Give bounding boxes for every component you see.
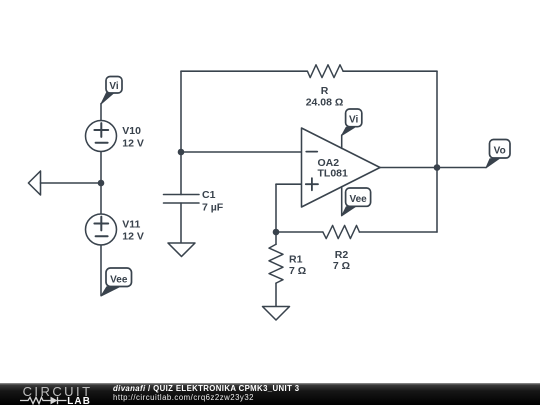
svg-text:Vi: Vi bbox=[349, 115, 358, 126]
svg-text:LAB: LAB bbox=[67, 396, 91, 405]
op-amp noninverting input plus symbol bbox=[306, 178, 318, 190]
svg-text:TL081: TL081 bbox=[318, 168, 349, 180]
wire: resistor R2 to right vertical bbox=[359, 231, 437, 233]
ground symbol under C1 bbox=[168, 243, 195, 257]
svg-text:Vee: Vee bbox=[349, 194, 367, 205]
svg-text:24.08 Ω: 24.08 Ω bbox=[306, 97, 344, 109]
wire: node A to op-amp inverting input bbox=[181, 151, 302, 153]
svg-text:V10: V10 bbox=[122, 125, 141, 137]
svg-text:R: R bbox=[321, 85, 329, 97]
svg-text:12 V: 12 V bbox=[122, 137, 144, 149]
svg-text:Vi: Vi bbox=[109, 81, 118, 92]
wire: resistor R1 to ground bbox=[275, 283, 277, 306]
wire: node B to resistor R2 bbox=[276, 231, 323, 233]
node C junction dot bbox=[98, 180, 105, 187]
voltage source V11 bbox=[86, 214, 117, 245]
svg-text:V11: V11 bbox=[122, 218, 140, 230]
svg-text:Vee: Vee bbox=[110, 275, 128, 286]
wire: capacitor C1 to ground bbox=[180, 203, 182, 243]
wire: right vertical from output node down to R2 bbox=[436, 168, 438, 233]
wire: noninverting input down to node B bbox=[275, 184, 277, 232]
resistor R1 body bbox=[269, 244, 283, 283]
svg-text:7 Ω: 7 Ω bbox=[289, 265, 306, 277]
node A junction dot bbox=[178, 149, 185, 156]
wire: op-amp noninverting input horizontal bbox=[276, 183, 302, 185]
V11 plus symbol bbox=[94, 217, 108, 231]
svg-text:R1: R1 bbox=[289, 254, 303, 266]
flag Vi at op-amp V+ bbox=[342, 109, 362, 135]
footer credit text bbox=[113, 385, 299, 393]
wire: right vertical feedback down to output node bbox=[436, 71, 438, 167]
resistor R2 body bbox=[323, 225, 360, 238]
wire: op-amp V+ supply pin bbox=[341, 135, 343, 148]
capacitor C1 plates bbox=[164, 195, 200, 204]
output node junction dot bbox=[434, 164, 441, 171]
wire: Vi flag to V10 top bbox=[100, 104, 102, 121]
V10 plus symbol bbox=[94, 123, 108, 137]
svg-text:12 V: 12 V bbox=[122, 231, 144, 243]
footer bar bbox=[0, 383, 540, 405]
wire: op-amp output to Vo bbox=[380, 167, 486, 169]
wire: V10 bottom to ground node bbox=[100, 152, 102, 215]
voltage source V10 bbox=[86, 121, 117, 152]
wire: V11 bottom to Vee flag bbox=[100, 245, 102, 296]
wire: top horizontal from resistor R to right corner bbox=[343, 70, 437, 72]
svg-text:7 µF: 7 µF bbox=[202, 202, 224, 214]
wire: ground arrow to node C bbox=[41, 182, 102, 184]
svg-text:Vo: Vo bbox=[494, 146, 506, 157]
resistor R body bbox=[307, 65, 343, 78]
flag Vi at V10 bbox=[101, 77, 122, 105]
V10 minus symbol bbox=[96, 142, 108, 144]
flag Vee at op-amp V- bbox=[342, 188, 371, 216]
node B junction dot bbox=[273, 229, 280, 236]
svg-text:7 Ω: 7 Ω bbox=[333, 260, 350, 272]
op-amp inverting input minus symbol bbox=[306, 151, 317, 153]
wire: op-amp V- supply pin bbox=[341, 187, 343, 216]
wire: top horizontal from corner to resistor R bbox=[181, 70, 307, 72]
ground symbol under R1 bbox=[263, 307, 290, 321]
CircuitLab logo bbox=[14, 383, 106, 405]
op-amp OA2 triangle bbox=[302, 128, 381, 207]
V11 minus symbol bbox=[96, 235, 108, 237]
wire: node A down to capacitor C1 bbox=[180, 152, 182, 195]
ground arrow symbol pointing left bbox=[28, 171, 40, 195]
flag Vee at V11 bbox=[101, 268, 132, 296]
wire: node B to resistor R1 bbox=[275, 232, 277, 244]
svg-text:C1: C1 bbox=[202, 189, 216, 201]
flag Vo at output bbox=[486, 140, 510, 168]
wire: left branch vertical from top-left corner down to node A bbox=[180, 71, 182, 152]
